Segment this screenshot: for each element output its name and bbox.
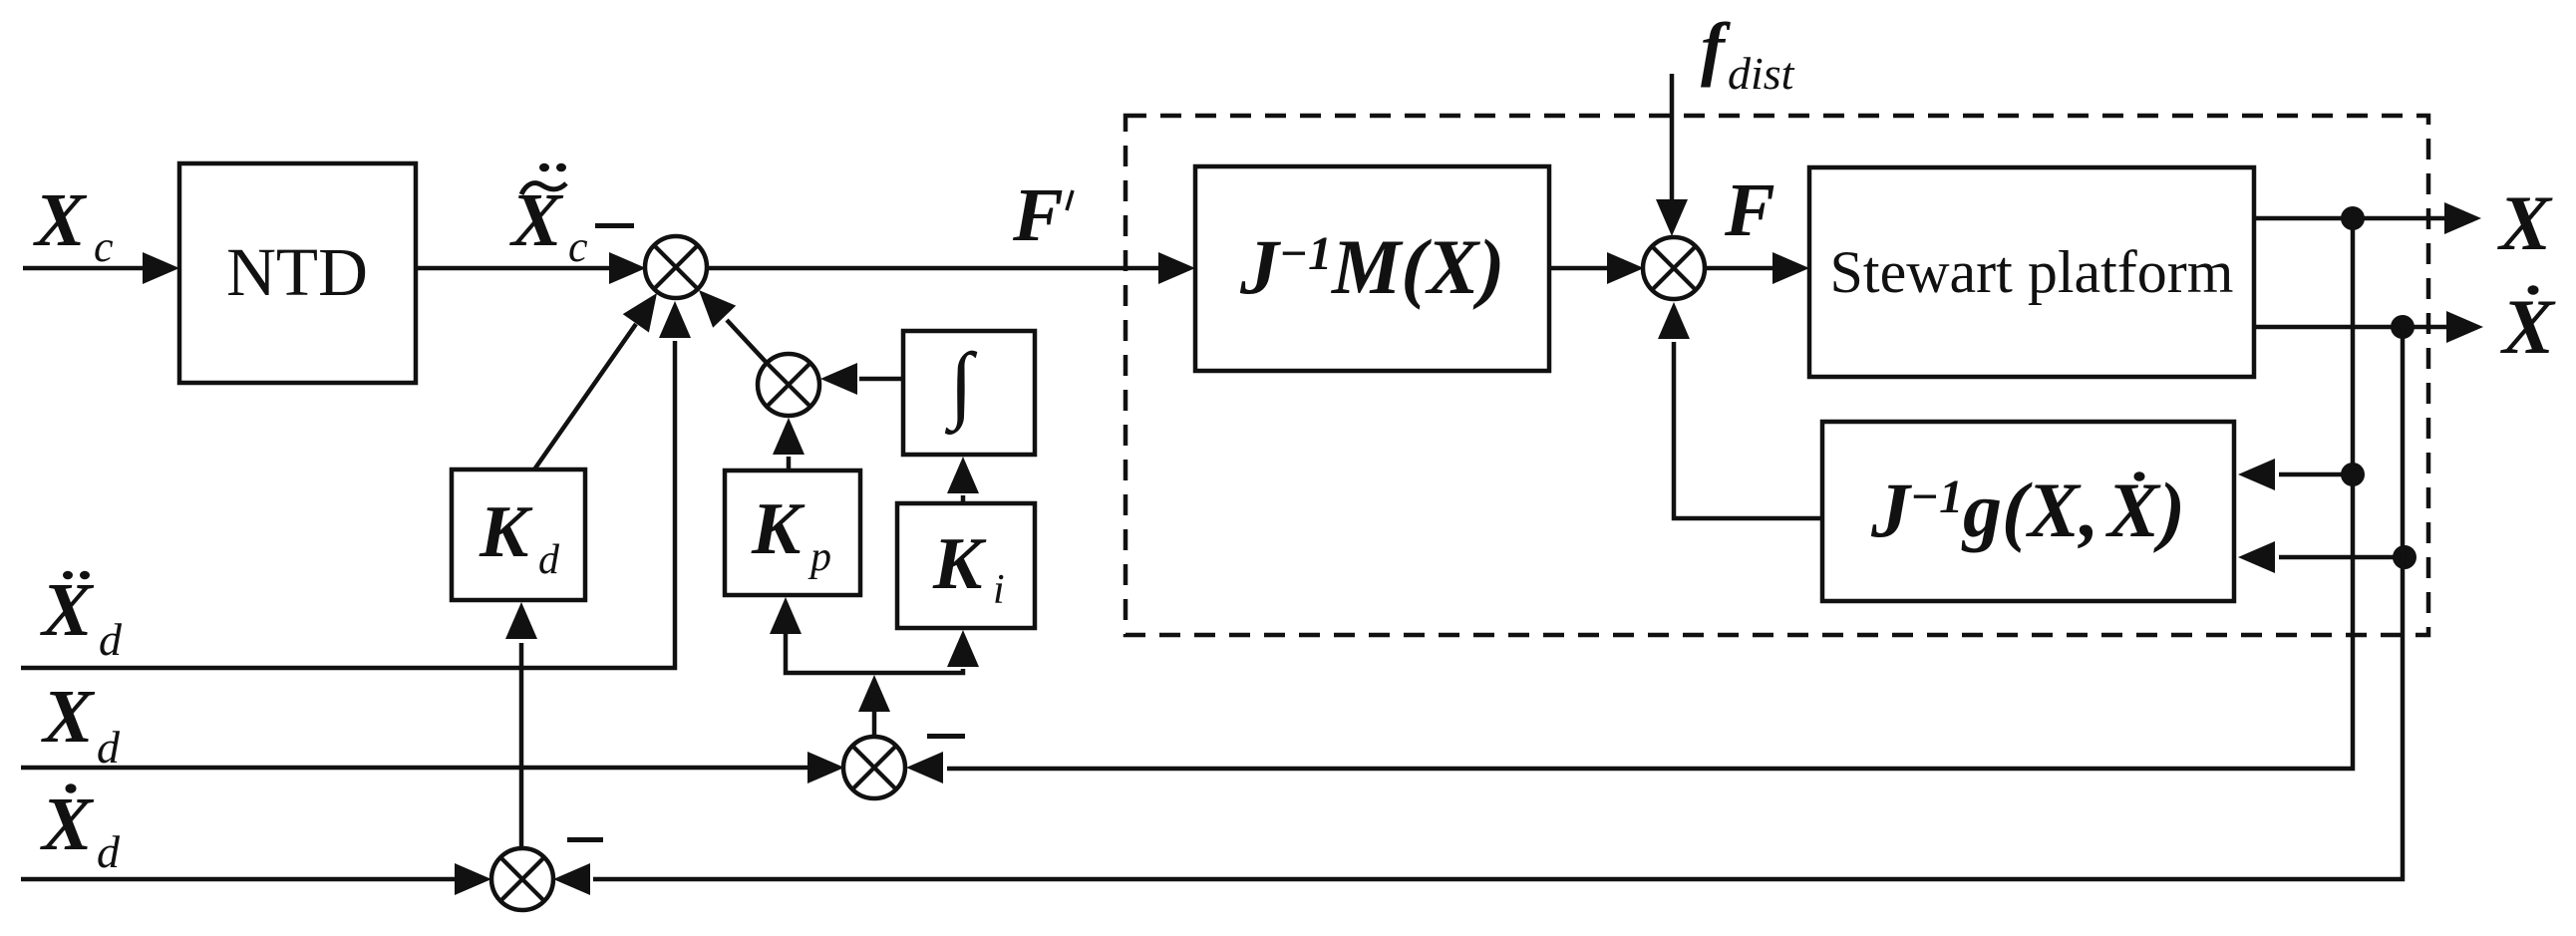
svg-text:Stewart platform: Stewart platform xyxy=(1830,239,2234,305)
wire J-1g to junction F xyxy=(1658,302,1822,518)
summing junction F xyxy=(1643,237,1705,299)
svg-text:F: F xyxy=(1012,173,1064,257)
wire D junction to Kd xyxy=(505,602,537,848)
block integrator xyxy=(903,331,1035,455)
wire X output xyxy=(2254,202,2481,234)
summing junction D xyxy=(491,848,553,910)
svg-text:K: K xyxy=(932,523,987,605)
block J-1g(X,Xdot) xyxy=(1822,422,2234,601)
wire integrator to junction B xyxy=(820,363,903,395)
svg-text:f: f xyxy=(1701,8,1731,88)
dashed plant box xyxy=(1126,116,2428,635)
svg-text:c: c xyxy=(568,222,588,271)
svg-text:i: i xyxy=(993,567,1005,613)
svg-text:X: X xyxy=(41,675,96,759)
svg-text:X: X xyxy=(2497,179,2553,266)
minus sign at junction A xyxy=(595,223,634,228)
label F xyxy=(1724,168,1775,252)
svg-text:−1: −1 xyxy=(1279,227,1332,280)
svg-text:g(X,: g(X, xyxy=(1961,467,2099,553)
svg-text:d: d xyxy=(99,614,123,665)
block K_p xyxy=(725,470,860,595)
wire Kp to junction B xyxy=(773,418,805,470)
wire Xdot output xyxy=(2254,311,2483,343)
svg-text:X: X xyxy=(2105,467,2161,553)
svg-text:J: J xyxy=(1239,223,1282,310)
svg-text:d: d xyxy=(97,826,121,877)
summing junction M xyxy=(843,737,905,798)
summing junction B xyxy=(758,354,819,416)
label X_d xyxy=(41,675,121,773)
wire J-1M to junction F xyxy=(1549,252,1644,284)
wire Kd to junction A xyxy=(534,293,657,469)
block NTD xyxy=(179,163,416,383)
svg-text:−1: −1 xyxy=(1910,470,1963,523)
label F prime xyxy=(1012,173,1073,257)
wire B to junction A xyxy=(699,290,767,363)
wire Xdd_d input xyxy=(21,301,691,668)
node J-1g upper tap xyxy=(2341,463,2365,486)
block K_i xyxy=(897,503,1035,628)
svg-text:NTD: NTD xyxy=(226,234,368,310)
svg-text:K: K xyxy=(479,491,533,573)
wire connector to Ki xyxy=(947,630,979,667)
svg-text:F: F xyxy=(1724,168,1775,252)
label Xdot output xyxy=(2500,283,2556,370)
wire M to Kp/Ki connector xyxy=(858,675,890,737)
label X_c xyxy=(33,178,114,271)
wire X_d input xyxy=(21,752,844,783)
svg-text:X: X xyxy=(40,568,95,652)
node J-1g lower tap xyxy=(2393,545,2416,569)
svg-text:M(X): M(X) xyxy=(1330,223,1504,310)
svg-text:X: X xyxy=(33,178,88,262)
svg-text:d: d xyxy=(97,722,121,773)
block Stewart platform xyxy=(1809,167,2254,377)
wire f_dist into F xyxy=(1656,74,1688,236)
wire X feedback xyxy=(906,218,2353,783)
wire Xd_d input xyxy=(21,863,491,895)
svg-text:X: X xyxy=(2500,283,2556,370)
block J-1M(X) xyxy=(1195,166,1549,371)
summing junction A xyxy=(645,236,707,298)
label X output xyxy=(2497,179,2553,266)
wire Ki to integrator xyxy=(947,457,979,503)
block K_d xyxy=(452,469,585,600)
wire A to J-1M xyxy=(707,252,1195,284)
wire NTD output xyxy=(416,252,646,284)
wire connector to Kp xyxy=(770,597,802,634)
minus sign at junction M xyxy=(927,734,965,739)
label Xdd_d xyxy=(40,568,123,665)
svg-text:d: d xyxy=(538,537,560,583)
wire F to Stewart xyxy=(1705,252,1809,284)
label Xd_d xyxy=(40,782,121,877)
wire Xdot feedback xyxy=(553,327,2403,895)
minus sign at junction D xyxy=(567,837,603,842)
node Xdot tap xyxy=(2391,315,2415,339)
wire Xdot into J-1g xyxy=(2238,541,2405,573)
svg-text:dist: dist xyxy=(1728,48,1795,99)
svg-text:K: K xyxy=(751,488,805,570)
svg-text:J: J xyxy=(1870,467,1913,553)
node X tap xyxy=(2341,206,2365,230)
wire X into J-1g xyxy=(2238,459,2353,490)
svg-text:X: X xyxy=(40,782,95,866)
label f_dist xyxy=(1701,8,1795,99)
svg-text:c: c xyxy=(94,222,114,271)
wire connector xyxy=(786,634,963,673)
wire X_c input xyxy=(23,252,179,284)
label Xc_est (X tilde double-dot c) xyxy=(509,163,588,271)
svg-text:p: p xyxy=(807,534,831,580)
